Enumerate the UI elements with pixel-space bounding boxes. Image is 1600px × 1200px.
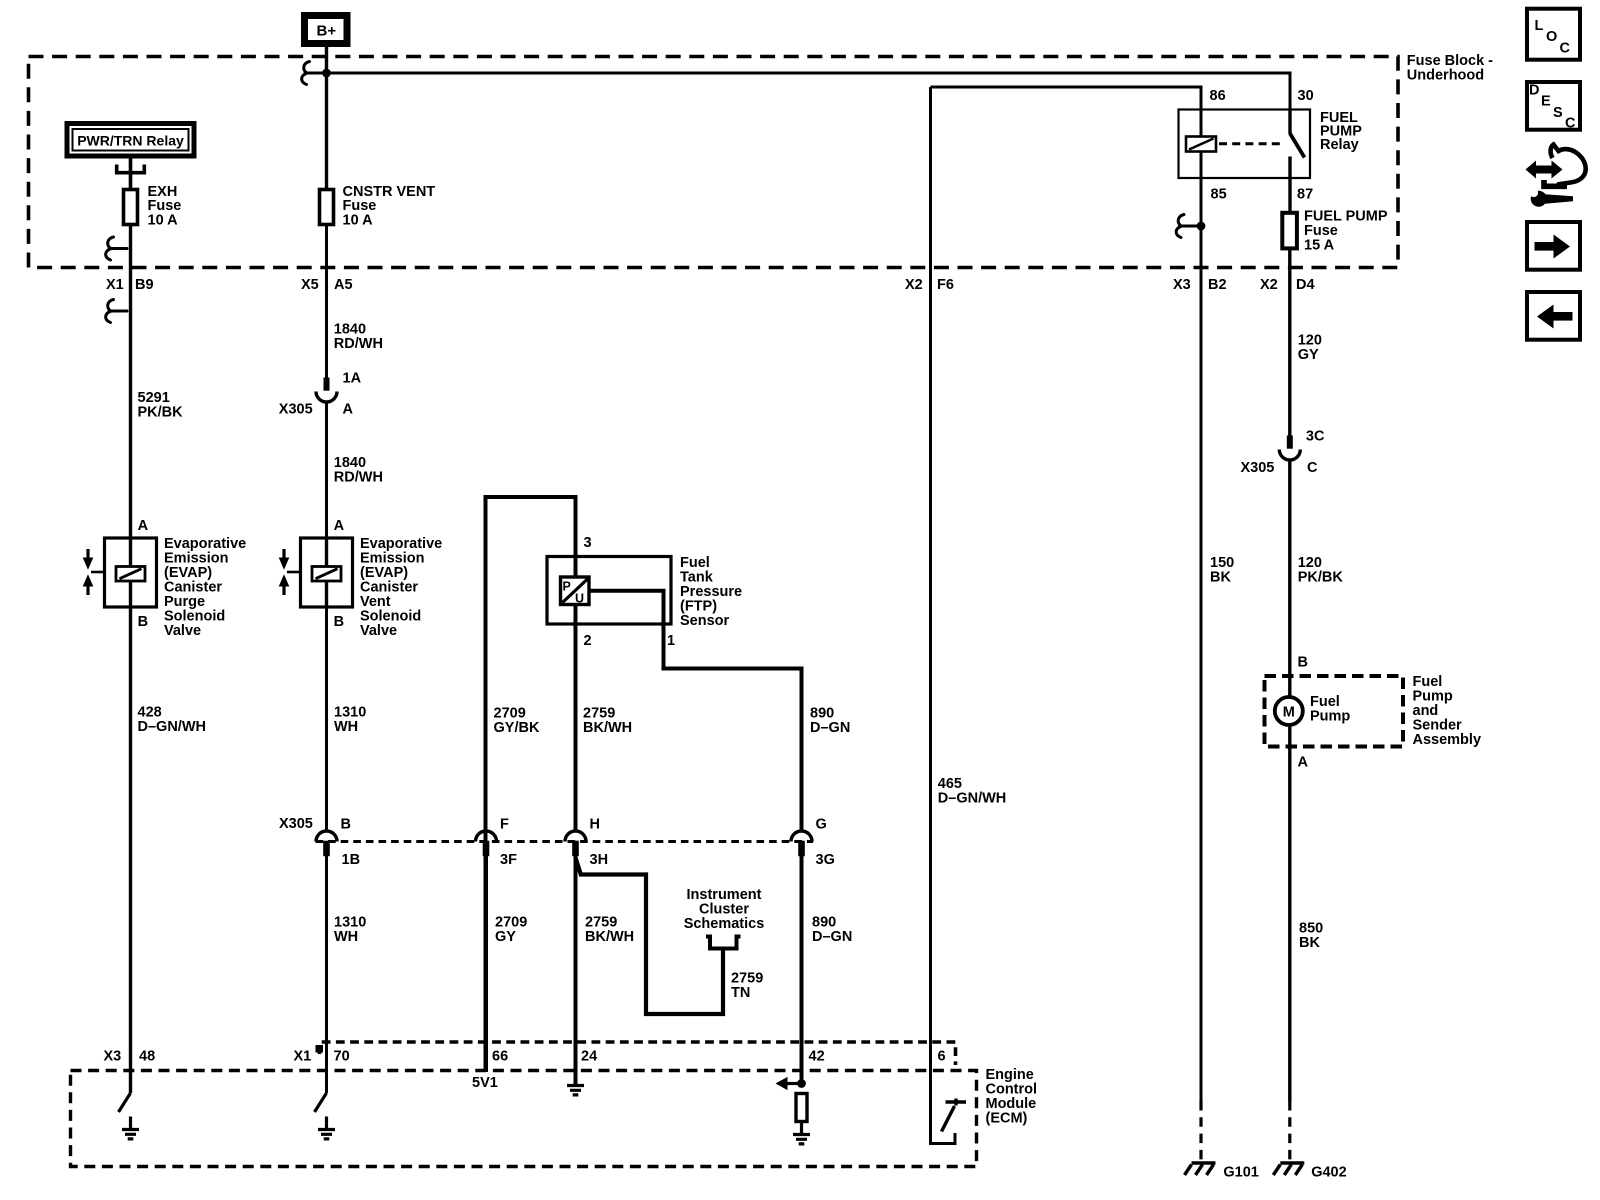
svg-text:5V1: 5V1 bbox=[472, 1075, 498, 1091]
label circuit 1840 RD/WH lower bbox=[334, 455, 383, 486]
svg-text:O: O bbox=[1546, 29, 1557, 45]
svg-text:6: 6 bbox=[938, 1049, 946, 1065]
label circuit 850 BK bbox=[1299, 921, 1323, 952]
svg-text:3G: 3G bbox=[816, 852, 835, 868]
svg-text:P: P bbox=[563, 580, 571, 594]
connector label X1 70 bbox=[294, 1049, 350, 1065]
svg-text:GY: GY bbox=[495, 929, 516, 945]
svg-text:B2: B2 bbox=[1208, 277, 1227, 293]
svg-text:Sensor: Sensor bbox=[680, 613, 730, 629]
pin 2 lead inside bbox=[574, 605, 578, 625]
svg-text:10 A: 10 A bbox=[148, 212, 179, 228]
relay PWR/TRN Relay bbox=[67, 124, 194, 157]
svg-text:RD/WH: RD/WH bbox=[334, 336, 383, 352]
svg-text:24: 24 bbox=[581, 1049, 597, 1065]
ECM internal switch to ground pin 70 bbox=[315, 1093, 336, 1139]
svg-text:B: B bbox=[1298, 655, 1308, 671]
svg-text:30: 30 bbox=[1298, 88, 1314, 104]
pin 1 lead inside bbox=[589, 591, 664, 624]
ECM X1 key square bbox=[316, 1045, 324, 1053]
label circuit 1310 WH upper bbox=[334, 705, 366, 736]
svg-text:A: A bbox=[1298, 755, 1309, 771]
connector X305 terminal A bbox=[316, 378, 337, 403]
wire fuse block feed to relay pin 86 bbox=[931, 87, 1202, 109]
svg-text:BK/WH: BK/WH bbox=[583, 720, 632, 736]
svg-text:BK: BK bbox=[1210, 569, 1231, 585]
svg-text:Valve: Valve bbox=[164, 623, 201, 639]
solenoid EVAP canister vent bbox=[279, 518, 353, 630]
wire fuel pump A down to G402 bbox=[1288, 747, 1291, 1102]
svg-text:Relay: Relay bbox=[1320, 137, 1359, 153]
wire branch to instrument cluster bbox=[576, 858, 724, 1015]
svg-text:PK/BK: PK/BK bbox=[138, 404, 184, 420]
label circuit 2759 BK/WH upper bbox=[583, 706, 632, 737]
connector X305 terminal B bbox=[316, 831, 337, 856]
svg-text:TN: TN bbox=[731, 985, 750, 1001]
ground G101 bbox=[1185, 1163, 1216, 1175]
wire X305 3G down to ECM pin 42 bbox=[800, 856, 804, 1085]
svg-text:X1: X1 bbox=[106, 277, 124, 293]
svg-text:1B: 1B bbox=[342, 852, 361, 868]
svg-text:X5: X5 bbox=[301, 277, 319, 293]
wire relay 85 down through fuse block bbox=[1200, 179, 1203, 1101]
svg-text:2: 2 bbox=[584, 633, 592, 649]
dashed ground lead to G101 bbox=[1199, 1101, 1202, 1161]
svg-text:D–GN: D–GN bbox=[812, 929, 852, 945]
junction on 85 wire bbox=[1197, 222, 1206, 231]
svg-text:Pump: Pump bbox=[1310, 709, 1350, 725]
sensor B1 Fuel Tank Pressure FTP bbox=[547, 535, 675, 649]
svg-text:S: S bbox=[1553, 105, 1563, 121]
svg-text:10 A: 10 A bbox=[343, 212, 374, 228]
svg-text:BK: BK bbox=[1299, 935, 1320, 951]
svg-text:E: E bbox=[1541, 94, 1551, 110]
svg-text:RD/WH: RD/WH bbox=[334, 469, 383, 485]
label circuit 2709 GY lower bbox=[495, 914, 527, 945]
svg-text:66: 66 bbox=[492, 1049, 508, 1065]
svg-text:C: C bbox=[1560, 41, 1571, 57]
svg-text:D–GN/WH: D–GN/WH bbox=[938, 791, 1006, 807]
ECM internal ground pin 24 bbox=[574, 1069, 578, 1085]
icon hand with arrow and wrench bbox=[1526, 145, 1586, 207]
wire X305 1B down to ECM pin 70 bbox=[325, 856, 328, 1094]
connector label X2 D4 bbox=[1260, 277, 1315, 293]
wire X305 3H down to ECM pin 24 bbox=[574, 856, 578, 1082]
label circuit 150 BK bbox=[1210, 555, 1234, 586]
svg-text:X3: X3 bbox=[104, 1049, 122, 1065]
label circuit 428 D-GN/WH bbox=[138, 705, 206, 736]
wire X305 3F down to ECM pin 66 bbox=[484, 856, 488, 1073]
svg-text:G: G bbox=[816, 817, 827, 833]
connector X305 terminal F bbox=[476, 831, 497, 856]
svg-text:B: B bbox=[138, 614, 148, 630]
connector X305 terminal H bbox=[565, 831, 586, 856]
pin 3 lead inside bbox=[574, 556, 578, 576]
fuel pump and sender assembly boundary bbox=[1265, 676, 1404, 747]
svg-text:42: 42 bbox=[809, 1049, 825, 1065]
svg-text:GY/BK: GY/BK bbox=[494, 720, 540, 736]
svg-text:U: U bbox=[575, 592, 584, 606]
label Fuel Tank Pressure (FTP) Sensor bbox=[680, 555, 742, 629]
fuse CNSTR VENT 10 A bbox=[320, 184, 436, 228]
svg-text:85: 85 bbox=[1211, 186, 1227, 202]
svg-text:X1: X1 bbox=[294, 1049, 312, 1065]
svg-text:X305: X305 bbox=[279, 816, 313, 832]
label circuit 120 PK/BK bbox=[1298, 555, 1344, 586]
wire B+ vertical to CNSTR VENT fuse bbox=[325, 46, 328, 189]
svg-text:D4: D4 bbox=[1296, 277, 1315, 293]
connector X305 terminal G bbox=[791, 831, 812, 856]
connector X305 row dashed line bbox=[316, 840, 814, 843]
svg-text:Valve: Valve bbox=[360, 623, 397, 639]
svg-text:A: A bbox=[138, 518, 149, 534]
svg-text:Schematics: Schematics bbox=[684, 916, 765, 932]
label circuit 120 GY bbox=[1298, 332, 1322, 363]
wire EVAP vent B down to X305 B bbox=[325, 607, 328, 831]
label circuit 890 D-GN lower bbox=[812, 914, 852, 945]
ECM internal switch to ground pin 48 bbox=[119, 1093, 140, 1139]
solenoid EVAP canister purge bbox=[83, 518, 157, 630]
label circuit 2759 BK/WH lower bbox=[585, 914, 634, 945]
svg-text:BK/WH: BK/WH bbox=[585, 929, 634, 945]
svg-text:L: L bbox=[1535, 18, 1544, 34]
ECM X1 connector dotted strip bbox=[320, 1042, 956, 1065]
label circuit 1310 WH lower bbox=[334, 914, 366, 945]
relay coil bbox=[1186, 137, 1216, 152]
svg-text:X2: X2 bbox=[905, 277, 923, 293]
wire EXH fuse down to EVAP purge solenoid bbox=[129, 224, 132, 538]
svg-text:3H: 3H bbox=[590, 852, 609, 868]
wire B+ feed to relay pin 30 bbox=[327, 73, 1291, 109]
label Evaporative Emission (EVAP) Canister Purge Solenoid Valve bbox=[164, 536, 246, 639]
valve symbol bbox=[83, 549, 105, 595]
svg-text:(ECM): (ECM) bbox=[986, 1111, 1028, 1127]
svg-text:3: 3 bbox=[584, 535, 592, 551]
label circuit 2759 TN bbox=[731, 971, 763, 1002]
svg-text:G101: G101 bbox=[1223, 1164, 1258, 1180]
relay coil to switch dashed link bbox=[1219, 142, 1285, 145]
svg-text:D–GN: D–GN bbox=[810, 720, 850, 736]
svg-text:D–GN/WH: D–GN/WH bbox=[138, 719, 206, 735]
relay switch blade bbox=[1290, 134, 1305, 158]
relay coil feed pin 86 inside bbox=[1200, 109, 1203, 137]
svg-text:PWR/TRN Relay: PWR/TRN Relay bbox=[77, 133, 184, 149]
svg-text:86: 86 bbox=[1210, 88, 1226, 104]
ground G402 bbox=[1273, 1163, 1304, 1175]
fuse block underhood boundary bbox=[29, 57, 1399, 268]
svg-text:15 A: 15 A bbox=[1304, 238, 1335, 254]
dashed ground lead to G402 bbox=[1288, 1101, 1291, 1161]
svg-text:B: B bbox=[334, 614, 344, 630]
module ECM boundary bbox=[71, 1071, 977, 1167]
svg-text:3F: 3F bbox=[500, 852, 517, 868]
connector X305 terminal C bbox=[1279, 436, 1300, 461]
label circuit 890 D-GN upper bbox=[810, 706, 850, 737]
wire 5V reference from ECM 66 up and over to FTP sensor pin 3 bbox=[486, 497, 576, 1072]
svg-text:C: C bbox=[1307, 460, 1318, 476]
icon DESC box bbox=[1527, 82, 1580, 132]
label circuit 5291 PK/BK bbox=[138, 390, 184, 421]
svg-text:X305: X305 bbox=[279, 402, 313, 418]
icon LOC box bbox=[1527, 9, 1580, 60]
icon back arrow box bbox=[1527, 292, 1580, 340]
svg-text:1: 1 bbox=[667, 633, 675, 649]
splice hook below connector B9 bbox=[106, 300, 127, 323]
P/U transducer box bbox=[561, 577, 590, 605]
wire fuel pump fuse down to X305 C bbox=[1288, 249, 1291, 436]
svg-text:C: C bbox=[1565, 116, 1576, 132]
svg-text:F6: F6 bbox=[937, 277, 954, 293]
svg-text:WH: WH bbox=[334, 929, 358, 945]
wire FTP pin 2 down to X305 H bbox=[574, 624, 578, 831]
svg-text:PK/BK: PK/BK bbox=[1298, 569, 1344, 585]
svg-text:X2: X2 bbox=[1260, 277, 1278, 293]
svg-text:1A: 1A bbox=[343, 371, 362, 387]
svg-text:G402: G402 bbox=[1311, 1164, 1346, 1180]
svg-text:GY: GY bbox=[1298, 347, 1319, 363]
svg-text:H: H bbox=[590, 817, 600, 833]
label circuit 2709 GY/BK bbox=[494, 706, 540, 737]
wire EVAP purge B down to ECM pin 48 bbox=[129, 607, 132, 1093]
svg-text:B: B bbox=[341, 817, 351, 833]
svg-text:WH: WH bbox=[334, 719, 358, 735]
wire FTP pin 1 over to X305 G bbox=[664, 624, 802, 831]
motor M1 fuel pump bbox=[1275, 676, 1303, 747]
fuse FUEL PUMP 15 A bbox=[1282, 209, 1388, 254]
label Engine Control Module (ECM) bbox=[986, 1067, 1038, 1127]
junction B+ tap bbox=[322, 69, 331, 78]
svg-text:Assembly: Assembly bbox=[1413, 732, 1482, 748]
wire fuse block F6 down to ECM pin 6 bbox=[929, 87, 932, 1069]
wire X305 A down to EVAP vent solenoid bbox=[325, 403, 328, 538]
svg-text:3C: 3C bbox=[1306, 429, 1325, 445]
splice hook below EXH fuse bbox=[106, 237, 127, 260]
label Instrument Cluster Schematics bbox=[684, 887, 765, 932]
relay U1 FUEL PUMP Relay bbox=[1179, 88, 1363, 202]
svg-text:Underhood: Underhood bbox=[1407, 68, 1484, 84]
icon forward arrow box bbox=[1527, 222, 1580, 270]
ECM internal driver switch pin 6 bbox=[931, 1069, 967, 1144]
svg-text:X3: X3 bbox=[1173, 277, 1191, 293]
relay switch common pin 30 stub bbox=[1288, 109, 1291, 135]
label Fuel Pump and Sender Assembly bbox=[1413, 674, 1482, 748]
label circuit 1840 RD/WH upper bbox=[334, 321, 383, 352]
fuse EXH 10 A bbox=[124, 184, 182, 228]
svg-text:A5: A5 bbox=[334, 277, 353, 293]
connector label X2 F6 bbox=[905, 277, 954, 293]
wire CNSTR VENT fuse down to X305 A bbox=[325, 224, 328, 379]
svg-text:F: F bbox=[500, 817, 509, 833]
ECM internal signal arrow and pull-up resistor pin 42 bbox=[776, 1077, 811, 1144]
svg-text:A: A bbox=[334, 518, 345, 534]
wire X305 C down to fuel pump bbox=[1288, 461, 1291, 675]
svg-text:87: 87 bbox=[1297, 186, 1313, 202]
connector label X5 A5 bbox=[301, 277, 353, 293]
off-page reference bracket to instrument cluster bbox=[706, 937, 741, 949]
splice hook on 85 wire bbox=[1176, 215, 1197, 238]
connector label X3 48 bbox=[104, 1049, 156, 1065]
svg-text:B+: B+ bbox=[317, 23, 337, 40]
svg-text:A: A bbox=[343, 402, 354, 418]
label circuit 465 D-GN/WH bbox=[938, 776, 1006, 807]
relay pin 87 stub bbox=[1288, 157, 1291, 179]
connector label X1 B9 bbox=[106, 277, 154, 293]
power node B+ bbox=[305, 16, 348, 44]
label Fuel Pump at motor bbox=[1310, 694, 1350, 725]
svg-text:70: 70 bbox=[334, 1049, 350, 1065]
svg-text:M: M bbox=[1283, 705, 1295, 721]
label Fuse Block - Underhood bbox=[1407, 53, 1493, 84]
svg-text:D: D bbox=[1529, 83, 1539, 99]
label Evaporative Emission (EVAP) Canister Vent Solenoid Valve bbox=[360, 536, 442, 639]
relay pin 85 stub bbox=[1200, 152, 1203, 179]
svg-text:48: 48 bbox=[139, 1049, 155, 1065]
splice hook at B+ junction bbox=[302, 62, 323, 85]
relay contact terminal bracket bbox=[117, 159, 145, 189]
wire relay 87 to fuse bbox=[1288, 179, 1291, 212]
svg-text:B9: B9 bbox=[135, 277, 154, 293]
valve symbol bbox=[279, 549, 301, 595]
connector label X3 B2 bbox=[1173, 277, 1227, 293]
svg-text:X305: X305 bbox=[1241, 460, 1275, 476]
